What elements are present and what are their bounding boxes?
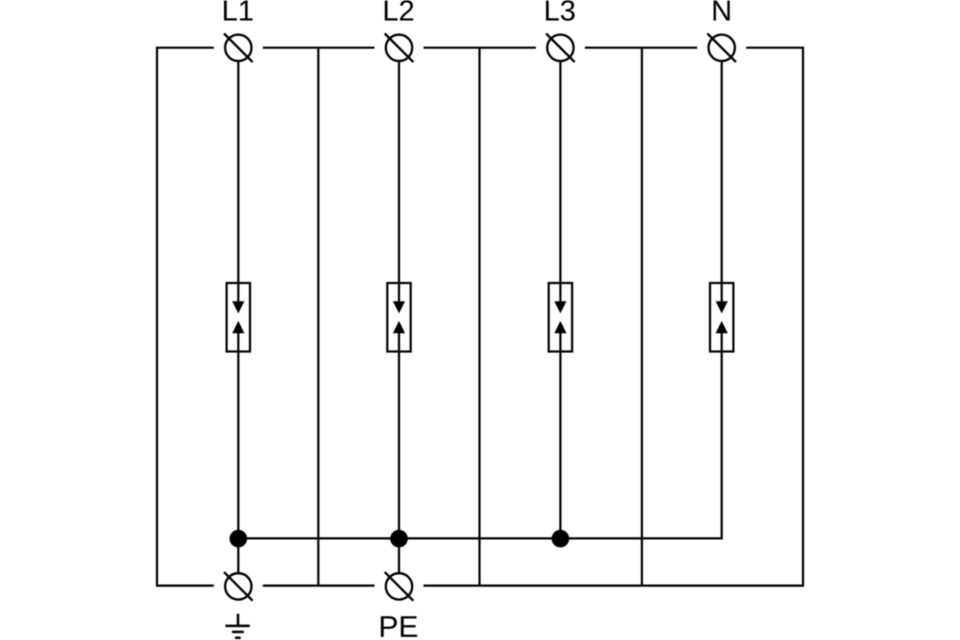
terminal PE (bottom) (385, 572, 414, 601)
junction dot L3/PE (552, 530, 570, 548)
wire top bus segment 2 (263, 47, 375, 49)
junction dot L1/PE (230, 530, 248, 548)
wire top bus segment 3 (424, 47, 536, 49)
wire N lower stem joining PE bus (238, 332, 721, 538)
wire L2 lower stem (398, 332, 400, 572)
label L1 (224, 1, 252, 21)
ground symbol (226, 614, 250, 638)
label N (714, 1, 730, 21)
wire L3 upper stem (559, 62, 561, 303)
wire bottom frame segment 2 (263, 584, 375, 586)
terminal L3 (546, 34, 575, 63)
wire L1 upper stem (237, 62, 239, 303)
terminal N (707, 34, 736, 63)
label L2 (385, 0, 413, 20)
wire N upper stem (721, 62, 723, 303)
wire L1 lower stem (237, 332, 239, 572)
terminal L2 (385, 34, 414, 63)
wire L3 lower stem (559, 332, 561, 538)
divider wire 1 (317, 48, 319, 586)
frame right edge with top/bottom wire (424, 48, 804, 586)
arrester F4 (N SPD) (710, 283, 733, 352)
divider wire 2 (478, 48, 480, 586)
terminal ground (bottom left) (224, 572, 253, 601)
wire L2 upper stem (398, 62, 400, 303)
wire top bus segment 4 (585, 47, 697, 49)
label PE (381, 616, 417, 637)
arrester F1 (L1 SPD) (227, 283, 250, 352)
arrester F3 (L3 SPD) (549, 283, 572, 352)
label L3 (546, 0, 575, 21)
divider wire 3 (641, 48, 643, 586)
arrester F2 (L2 SPD) (387, 283, 410, 352)
terminal L1 (224, 34, 253, 63)
frame left edge with top/bottom wire (157, 48, 214, 586)
junction dot L2/PE (390, 530, 408, 548)
